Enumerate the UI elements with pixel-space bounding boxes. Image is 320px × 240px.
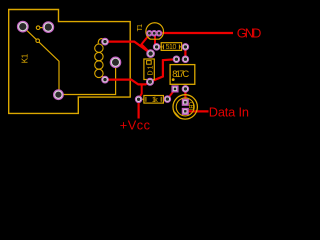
svg-text:Data In: Data In [209,105,249,120]
wire T1 collector to D1 top [142,33,151,53]
wire 510 right to 817C pin [184,47,186,59]
pad K1 coil bottom [102,76,109,83]
wire coil top to D1 top [105,42,151,54]
svg-text:510: 510 [166,44,177,51]
resistor 510 outline [161,43,181,51]
pad K1 common [54,90,64,100]
wire T1 base to R 510 [155,33,157,47]
optocoupler 817C outline U1 [170,65,195,85]
resistor 1k outline [144,96,164,104]
wire GND trace [161,32,234,34]
pad K1 NC [43,22,54,33]
pad K1 aux [110,57,120,67]
wire +Vcc net: coil bottom, D1 bottom, R 1k [105,80,150,85]
pads LED [183,100,189,115]
pads diode D1 [147,50,155,85]
svg-text:K1: K1 [20,53,29,63]
svg-text:T1: T1 [137,24,144,31]
svg-text:GND: GND [237,26,262,41]
svg-text:LED: LED [189,101,195,110]
pads resistor 510 [153,44,188,50]
wire 817C top-left to D1 bottom [150,59,176,82]
relay K1 outline [9,10,131,114]
transistor T1 outline [146,23,164,39]
diode D1 outline [144,59,154,80]
wire relay internal contact line [23,27,116,95]
node pin1 marker dot [172,78,175,81]
wire LED to Data In [185,110,208,112]
pads transistor T1 [147,31,162,36]
pads resistor 1k [135,96,170,103]
svg-text:1k: 1k [152,95,158,104]
svg-text:+Vcc: +Vcc [120,117,151,132]
LED D2 outline [173,95,197,119]
pad K1 NO [18,21,29,32]
svg-text:D1: D1 [147,65,154,75]
svg-text:817C: 817C [172,69,189,79]
pads 817C [172,56,188,92]
pad K1 coil top [102,38,109,45]
node switch pivot circle [36,39,40,43]
coil of relay K1 [95,39,105,80]
wire 817C pin to LED [184,89,186,102]
wire 1k right to 817C pin 2 [167,89,175,99]
node switch contact circle [36,26,40,30]
